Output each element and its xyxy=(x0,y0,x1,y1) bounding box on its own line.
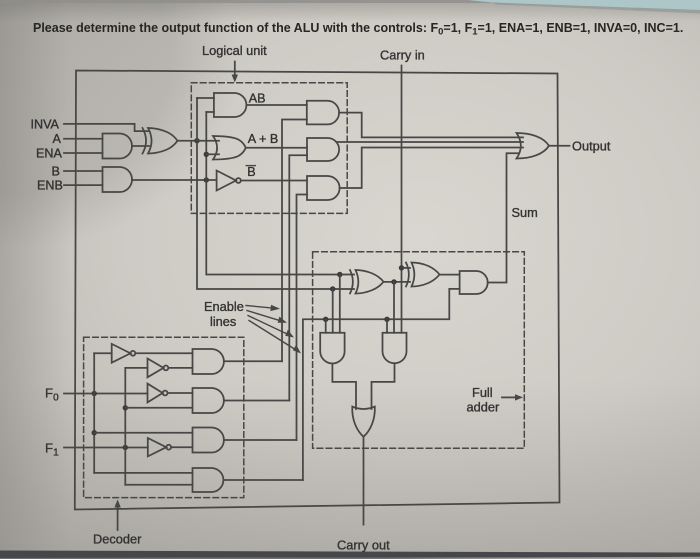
wire A-signal vertical (v1) xyxy=(197,98,354,289)
wire AND2 out / NOT input xyxy=(132,179,217,181)
wire F1 to d2 input xyxy=(125,407,192,409)
not gate decoder4 xyxy=(148,438,167,456)
wire output xyxy=(549,145,570,147)
not gate decoder3 xyxy=(148,384,163,403)
enable line d1 vertical xyxy=(282,120,307,362)
wire enable stub left xyxy=(325,319,327,333)
arrow to logical unit box xyxy=(234,62,236,76)
xor gate A⊕INVA xyxy=(143,128,147,154)
svg-text:B: B xyxy=(247,165,255,179)
node enable to carry-and left xyxy=(323,317,328,322)
svg-text:AB: AB xyxy=(249,91,266,105)
wire F0 to d3 input xyxy=(94,432,192,434)
node F1 junction xyxy=(123,445,128,450)
wire select1 out to OR xyxy=(339,113,523,138)
and gate AB xyxy=(214,93,247,117)
outer ALU box xyxy=(75,71,560,510)
wire d3 out xyxy=(224,439,297,441)
svg-text:Full: Full xyxy=(472,385,493,400)
and gate select2 xyxy=(307,138,339,161)
svg-text:A + B: A + B xyxy=(248,132,278,146)
xor gate adder1 xyxy=(350,270,353,294)
wire carry-in vertical xyxy=(401,66,403,333)
wire d4 out xyxy=(223,479,303,481)
full adder dashed box xyxy=(313,252,525,448)
node A-signal junction xyxy=(194,138,199,143)
screen top strip xyxy=(0,0,700,3)
wire v2 top bend into AB gate xyxy=(206,111,214,113)
and gate carry-left (down) xyxy=(320,333,344,364)
node xor1a branch xyxy=(391,279,396,284)
svg-text:A: A xyxy=(53,132,62,146)
wire A xyxy=(64,138,103,140)
wire F1 xyxy=(64,447,148,449)
or gate carry-out (down) xyxy=(352,407,375,437)
wire F0 to d4 input xyxy=(94,472,192,474)
svg-text:adder: adder xyxy=(467,400,500,415)
wire F1 vertical xyxy=(124,368,126,485)
and gate decoder d3 xyxy=(193,428,224,453)
svg-text:Carry out: Carry out xyxy=(337,538,390,553)
wire NOT4 out xyxy=(171,446,192,448)
wire F1 top bend to NOT2 xyxy=(125,367,147,369)
wire carry out xyxy=(363,437,365,525)
and gate B·ENB xyxy=(103,167,133,192)
and gate select3 xyxy=(307,176,340,200)
and gate select1 xyxy=(307,101,339,125)
node carry-in to XOR2 xyxy=(399,265,404,270)
wire ENB xyxy=(64,184,103,186)
wire F1 to d4 input xyxy=(125,484,192,486)
wire xor2a out xyxy=(440,274,460,276)
wire XOR out to node xyxy=(178,140,198,142)
node F1 to d2 xyxy=(123,405,128,410)
and gate carry-right (down) xyxy=(383,333,407,364)
enable line d3 vertical xyxy=(297,195,308,441)
wire v1 top bend into AB gate xyxy=(197,97,214,99)
dark bottom band xyxy=(0,551,700,559)
not gate decoder2 xyxy=(148,359,164,378)
wire carry-right out xyxy=(372,364,395,410)
svg-text:ENB: ENB xyxy=(37,179,63,193)
or gate A+B xyxy=(213,136,246,160)
wire F0 vertical xyxy=(93,353,95,473)
wire NOT out xyxy=(241,180,307,182)
xor gate adder2 xyxy=(406,263,409,287)
arrow enable 3 xyxy=(248,316,287,335)
arrow enable 1 xyxy=(246,306,272,309)
decoder dashed box xyxy=(84,337,244,497)
wire select2 out to OR xyxy=(337,141,524,143)
svg-text:Sum: Sum xyxy=(512,205,538,220)
wire select3 out to OR xyxy=(340,148,523,189)
node F0 to d3 xyxy=(92,430,97,435)
and gate decoder d1 xyxy=(193,349,224,374)
and gate A·ENA xyxy=(103,134,133,159)
wire B into adder xor handled above; node B branch xyxy=(337,272,342,277)
wire sum vertical to OR xyxy=(488,153,519,282)
wire A+B out xyxy=(246,147,307,149)
svg-text:Output: Output xyxy=(572,139,611,154)
svg-text:ENA: ENA xyxy=(36,146,62,160)
wire AB out xyxy=(246,104,306,106)
wire B xyxy=(64,170,103,172)
svg-text:B: B xyxy=(52,164,60,178)
node F0 junction xyxy=(92,391,97,396)
node enable to carry-and right xyxy=(384,317,389,322)
wire NOT2 out xyxy=(168,367,192,369)
node B-signal junction xyxy=(204,177,209,182)
arrow full adder xyxy=(502,396,516,398)
svg-text:Carry in: Carry in xyxy=(380,48,425,63)
wire ENA xyxy=(64,152,103,154)
wire cin stub into xor2 xyxy=(402,267,411,269)
arrow decoder xyxy=(117,506,119,530)
node A branch xyxy=(330,286,335,291)
wire d2 out xyxy=(224,400,289,402)
wire B branch down to carry and xyxy=(339,275,341,333)
wire enable stub right xyxy=(386,319,388,333)
wire d1 out xyxy=(224,360,282,362)
wire B-signal vertical (v2) xyxy=(206,112,354,275)
wire F0 xyxy=(64,393,148,395)
svg-text:Decoder: Decoder xyxy=(93,532,142,547)
enable line d4 to adder xyxy=(303,289,460,480)
or gate output (big) xyxy=(517,133,550,159)
wire NOT1 out xyxy=(135,352,192,354)
not gate decoder1 xyxy=(112,344,131,363)
wire carry-left out xyxy=(332,364,356,410)
svg-text:lines: lines xyxy=(210,314,236,329)
node OR bottom branch xyxy=(204,152,209,157)
wire A branch down to carry and xyxy=(332,289,334,333)
enable line d2 vertical xyxy=(289,155,307,400)
wire OR bottom input xyxy=(206,153,219,155)
wire xor1a branch down xyxy=(393,282,395,333)
wire NOT3 out xyxy=(168,392,193,394)
wire F0 top bend to NOT1 xyxy=(94,352,112,354)
svg-text:Enable: Enable xyxy=(204,299,244,314)
and gate decoder d2 xyxy=(193,388,224,413)
arrow enable 2 xyxy=(247,311,280,321)
cyan table edge top-right xyxy=(468,0,700,10)
not gate B invert xyxy=(217,171,236,191)
svg-text:Logical unit: Logical unit xyxy=(202,43,267,58)
wire AND1 out xyxy=(132,145,149,147)
logical unit dashed box xyxy=(191,83,347,214)
and gate decoder d4 xyxy=(193,468,224,492)
arrow enable 4 xyxy=(249,321,295,350)
and gate sum-enable xyxy=(460,271,488,294)
wire INVA xyxy=(64,124,148,131)
wire OR top input xyxy=(197,140,219,142)
svg-text:INVA: INVA xyxy=(31,117,60,131)
wire xor1a out xyxy=(384,281,411,283)
